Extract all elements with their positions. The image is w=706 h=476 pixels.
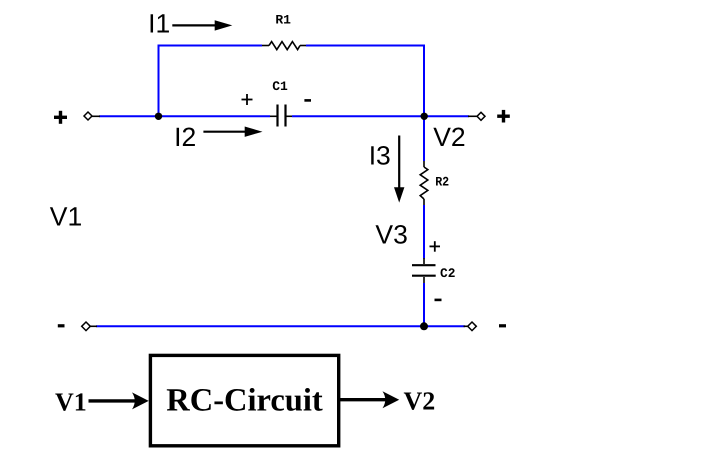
svg-text:V1: V1 — [55, 388, 87, 417]
svg-text:V2: V2 — [404, 387, 436, 416]
svg-text:R2: R2 — [435, 175, 449, 190]
svg-text:R1: R1 — [275, 12, 291, 27]
svg-text:C2: C2 — [440, 266, 456, 281]
svg-text:V1: V1 — [50, 201, 82, 231]
svg-text:I2: I2 — [174, 122, 196, 152]
svg-text:C1: C1 — [272, 79, 288, 94]
svg-text:I3: I3 — [369, 141, 391, 171]
svg-text:V3: V3 — [375, 220, 407, 250]
svg-text:V2: V2 — [433, 122, 465, 152]
svg-text:RC-Circuit: RC-Circuit — [166, 383, 323, 419]
svg-text:I1: I1 — [148, 9, 170, 39]
